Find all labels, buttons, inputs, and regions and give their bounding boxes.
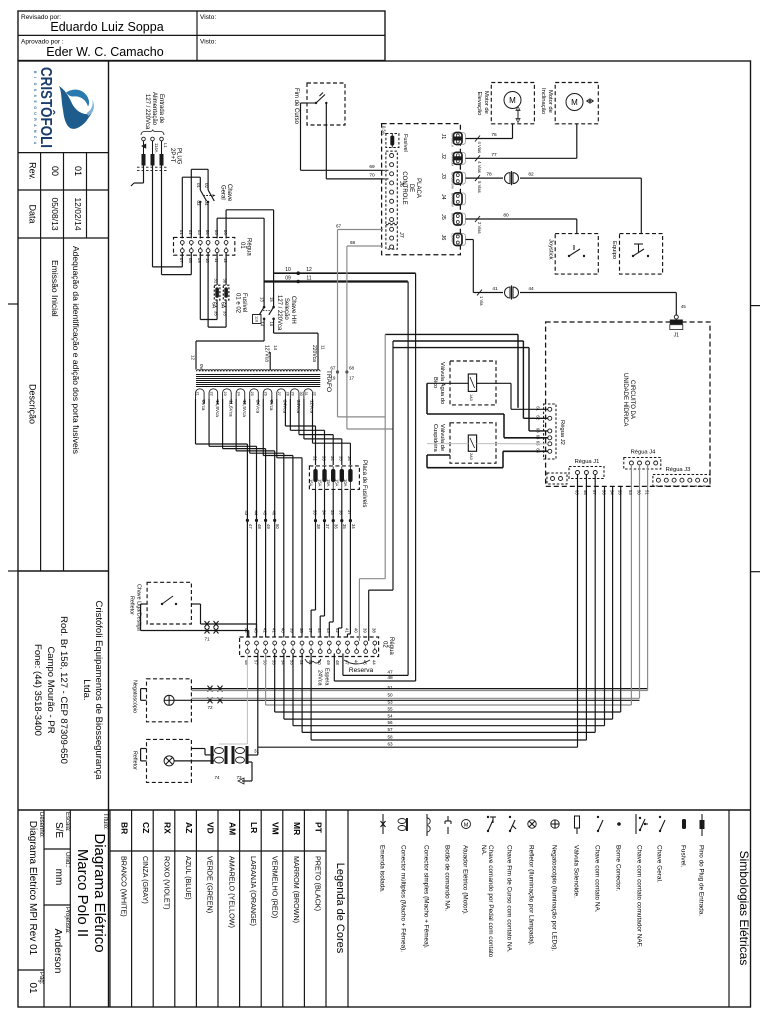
wires refletor with multi connectors 73 74 [141,746,260,784]
svg-text:53: 53 [387,699,393,704]
wires trafo taps to regua02 left terminals [196,408,303,638]
svg-text:15A: 15A [317,479,322,487]
svg-text:13: 13 [259,297,264,302]
svg-text:01: 01 [179,230,184,235]
svg-text:Motor de: Motor de [547,90,553,113]
svg-text:31: 31 [214,279,219,284]
svg-text:47: 47 [248,524,253,529]
svg-text:02: 02 [188,230,193,235]
svg-text:Régua J2: Régua J2 [559,420,565,445]
svg-text:2 Vias: 2 Vias [477,222,482,234]
svg-text:44: 44 [372,660,377,665]
reserva bracket [344,660,373,674]
svg-text:37: 37 [308,628,313,633]
wire 41-44 J6 to hydric unit J1 [466,240,687,316]
main switch Chave Geral [196,169,232,238]
svg-text:O: O [33,83,37,86]
hydric unit box CIRCUITO DA UNIDADE HIDRICA [546,322,710,486]
symbol insulated splice [379,814,386,893]
svg-text:Data: Data [27,204,37,223]
svg-text:24: 24 [236,392,240,396]
svg-text:Emenda isolada.: Emenda isolada. [379,845,386,893]
wire chaveHH to trafo 220 tap [274,319,318,370]
svg-text:10: 10 [205,258,210,263]
wires valvula cuspideira to J2 [427,444,548,468]
svg-text:1 Via: 1 Via [479,296,484,306]
terminal strip Regua J1 bottom [569,459,604,479]
svg-text:25: 25 [250,392,254,396]
bus verticals down to wires 47 48 [334,273,415,681]
svg-text:58: 58 [583,490,588,495]
svg-text:44: 44 [253,511,258,516]
svg-text:55: 55 [387,706,393,711]
svg-text:Entrada de: Entrada de [158,94,164,124]
svg-text:51: 51 [387,685,393,690]
svg-text:76: 76 [491,132,497,138]
terminal strip small regua bottom left [547,473,567,484]
wire 76 J1 to elevation motor [466,124,513,139]
splice marks 71 [204,621,218,642]
svg-text:S: S [33,89,37,92]
svg-text:22: 22 [209,392,213,396]
svg-text:Refletor (Iluminação por Lâmpa: Refletor (Iluminação por Lâmpada). [528,845,535,946]
svg-text:NA.: NA. [480,845,487,856]
svg-text:17: 17 [349,376,355,381]
double bus wires 09-12 to right [264,267,416,283]
svg-text:Emissão Inicial: Emissão Inicial [50,260,60,317]
svg-text:01: 01 [239,242,245,249]
svg-text:23: 23 [223,392,227,396]
svg-text:11: 11 [321,345,326,350]
svg-text:4 Vias: 4 Vias [477,142,482,154]
hydric unit connector J1 [670,315,683,339]
svg-text:41: 41 [492,286,498,292]
svg-text:J1: J1 [674,333,680,339]
wire regua01 t3 to fuse1 output [200,253,217,320]
svg-text:Visto:: Visto: [200,39,216,46]
symbol multi connector [398,818,407,952]
svg-text:57: 57 [387,727,393,732]
wire chave geral pole A loop [182,177,200,238]
svg-text:12: 12 [306,267,312,273]
svg-text:Fusível: Fusível [402,134,408,152]
wires chave refletor to regua02 [141,604,257,638]
svg-text:L1: L1 [163,143,168,148]
svg-text:49: 49 [326,660,331,665]
svg-text:Geral: Geral [220,185,226,200]
svg-text:UNIDADE HÍDRICA: UNIDADE HÍDRICA [622,373,629,426]
svg-text:ROXA: ROXA [451,213,455,222]
svg-text:67: 67 [330,366,336,371]
svg-text:12: 12 [191,355,196,361]
negatoscopio box [132,679,192,722]
wires fuse board outputs to regua02 [311,489,356,637]
svg-text:12/02/14: 12/02/14 [73,197,83,230]
svg-text:34: 34 [351,524,356,529]
svg-text:38: 38 [316,524,321,529]
espera 24vca bracket [305,659,330,687]
svg-text:15A: 15A [326,479,331,487]
svg-text:42: 42 [335,628,340,633]
svg-text:09: 09 [197,258,202,263]
wires negatoscopio 51 50 with splices 72 [141,686,648,710]
svg-text:Válvula de: Válvula de [439,424,445,451]
wires 67 68 from J7 down left [330,224,383,430]
svg-text:Negatoscópio (Iluminação por L: Negatoscópio (Iluminação por LEDs). [551,845,558,951]
wire plug pin3 to regua01 terminal 2 [162,166,192,275]
svg-text:39: 39 [290,628,295,633]
svg-text:0Vca: 0Vca [269,400,274,411]
svg-text:51: 51 [644,490,649,495]
svg-text:AM: AM [227,822,237,835]
symbol NAF switch [636,814,649,948]
svg-text:Descrição: Descrição [27,384,37,424]
svg-text:A: A [33,142,37,145]
symbol borne connector [615,822,622,891]
J2 feed wires from top [385,334,548,431]
svg-text:54: 54 [609,490,614,495]
svg-text:24Vca: 24Vca [255,400,260,413]
svg-text:J6: J6 [440,235,446,241]
svg-text:24Vca: 24Vca [317,670,323,687]
svg-text:Chave Fim de Curso com contato: Chave Fim de Curso com contato NA. [506,845,513,953]
svg-text:AZUL (BLUE): AZUL (BLUE) [184,856,193,900]
svg-text:MARROM: MARROM [451,193,455,207]
svg-text:Marco Polo II: Marco Polo II [74,849,91,937]
svg-text:37: 37 [347,510,352,515]
svg-text:52: 52 [299,660,304,665]
svg-text:CONTROLE: CONTROLE [401,171,407,204]
svg-text:B: B [33,71,37,74]
svg-text:6A: 6A [211,302,217,309]
svg-text:34: 34 [330,456,335,461]
equipo pedal box [611,234,663,275]
svg-text:40: 40 [353,628,358,633]
joystick box [547,234,598,275]
svg-text:LILAS: LILAS [451,234,455,242]
svg-text:Borne Conector.: Borne Conector. [615,845,622,891]
svg-text:28: 28 [286,392,290,396]
svg-text:Válvula Solenóide.: Válvula Solenóide. [573,845,580,898]
wire 80 J5 to joystick [466,213,577,233]
svg-text:43: 43 [244,511,249,516]
svg-text:38: 38 [299,628,304,633]
transformer TRAFO [196,370,333,399]
svg-text:J5: J5 [440,214,446,220]
svg-text:Atuador Elétrico (Motor).: Atuador Elétrico (Motor). [462,845,469,915]
electrical symbols legend title [729,810,751,1007]
svg-text:DE: DE [408,184,414,192]
svg-text:MR: MR [292,822,302,835]
svg-text:Chave HH: Chave HH [290,296,296,324]
svg-text:AMARELO (YELLOW): AMARELO (YELLOW) [227,856,236,928]
svg-text:55: 55 [272,660,277,665]
svg-text:Legenda de Cores: Legenda de Cores [334,863,346,954]
svg-text:56: 56 [387,720,393,725]
svg-text:VM: VM [271,822,281,835]
svg-text:36: 36 [339,510,344,515]
terminal strip Regua J4 [624,450,661,470]
svg-text:50: 50 [275,524,280,529]
fuse board Placa de Fusiveis [308,460,367,507]
svg-text:05/08/13: 05/08/13 [50,197,60,230]
wire regua01 t6 to bus upper [226,210,274,273]
svg-text:110: 110 [255,316,259,322]
svg-text:Fone: (44) 3518-3400: Fone: (44) 3518-3400 [32,644,43,736]
symbol solenoid valve [573,816,580,898]
svg-text:68: 68 [350,240,356,245]
svg-text:2A3: 2A3 [469,453,473,460]
svg-text:CIRCUITO DA: CIRCUITO DA [629,380,635,419]
svg-text:G: G [33,106,37,109]
svg-text:49: 49 [266,524,271,529]
company info block [18,571,109,780]
svg-text:LR: LR [249,822,259,833]
svg-text:03: 03 [197,230,202,235]
svg-text:Campo Mourão - PR: Campo Mourão - PR [45,646,56,733]
svg-text:127Vca: 127Vca [264,345,270,362]
symbol reflector [528,820,537,946]
wire 78-82 J3 to equipo [466,171,642,233]
wire regua01 t4 to fuse2 output [208,253,226,328]
svg-text:Equipo: Equipo [611,241,617,259]
solenoid valve Valvula de Cuspideira [432,423,496,463]
svg-text:10,8Vca: 10,8Vca [215,400,220,417]
svg-text:Cuspideira: Cuspideira [432,424,438,452]
svg-text:Régua J4: Régua J4 [631,450,657,456]
svg-text:Eduardo Luiz Soppa: Eduardo Luiz Soppa [50,20,163,34]
svg-text:Fusível.: Fusível. [680,845,687,868]
wire chave geral pole B loop [191,169,208,238]
board connector J2 right edge [440,152,466,166]
svg-text:71: 71 [204,637,210,642]
trafo primary 127V tap [264,345,279,370]
svg-text:Rev.: Rev. [27,162,37,180]
symbol fuse [680,819,687,868]
svg-text:68: 68 [349,366,355,371]
svg-text:S/E: S/E [53,822,64,838]
svg-text:21: 21 [196,392,200,396]
svg-text:VERDE (GREEN): VERDE (GREEN) [206,856,215,913]
svg-text:14: 14 [273,345,278,351]
svg-text:0Vca: 0Vca [201,400,206,411]
svg-text:MARROM (BROWN): MARROM (BROWN) [292,856,301,923]
board connector J6 right edge [440,234,466,246]
selector switch Chave HH 127/220 [253,273,297,331]
svg-text:48: 48 [257,524,262,529]
symbol single connector [423,814,431,949]
svg-text:01 e 02: 01 e 02 [235,293,241,314]
motor de inclinacao [540,83,598,124]
svg-text:35: 35 [342,524,347,529]
svg-text:Fusível: Fusível [241,293,247,312]
wires trafo taps to fuse board [285,408,352,465]
svg-text:VD: VD [206,822,216,834]
svg-text:J6: J6 [398,181,404,187]
svg-text:53: 53 [290,660,295,665]
trafo secondary tap wires and voltage labels [196,392,317,418]
svg-text:77: 77 [491,152,497,158]
svg-text:J2: J2 [440,153,446,159]
svg-text:M: M [464,823,469,829]
svg-text:Régua J1: Régua J1 [575,459,600,465]
svg-text:35: 35 [330,510,335,515]
svg-text:35: 35 [214,311,219,316]
svg-text:36: 36 [334,524,339,529]
wire regua01 t5 to bus lower [217,218,264,281]
svg-text:LARANJA (ORANGE): LARANJA (ORANGE) [249,856,258,926]
svg-text:00: 00 [50,166,60,176]
svg-text:44: 44 [528,286,534,292]
svg-text:78: 78 [486,172,492,178]
svg-text:Eder W. C. Camacho: Eder W. C. Camacho [46,45,163,59]
limit switch Fim de Curso [293,83,345,125]
refletor box [132,739,192,782]
svg-text:Régua: Régua [388,637,394,655]
svg-text:Conector múltiplos (Macho + Fê: Conector múltiplos (Macho + Fêmea). [400,845,407,952]
svg-text:Visto:: Visto: [200,14,216,21]
svg-text:53: 53 [628,490,633,495]
symbol plug pin [698,814,705,916]
revision header box [18,11,385,61]
svg-text:19: 19 [330,376,336,381]
svg-text:J4: J4 [440,194,446,200]
svg-text:5 Vias: 5 Vias [477,181,482,193]
svg-text:Chave Geral.: Chave Geral. [656,845,663,883]
svg-text:33: 33 [223,311,228,316]
svg-text:Refletor: Refletor [129,596,135,615]
svg-text:PLACA: PLACA [415,178,421,198]
svg-text:Fim de Curso: Fim de Curso [293,88,299,125]
svg-text:Título:: Título: [102,813,108,830]
svg-text:Motor de: Motor de [483,91,489,114]
terminal strip Regua J3 [653,467,710,486]
svg-text:38: 38 [372,628,377,633]
wire chaveHH to trafo primary left [196,319,264,370]
svg-text:2P+T: 2P+T [169,148,175,163]
control board PLACA DE CONTROLE [382,124,461,255]
motor de elevacao [476,83,534,124]
svg-text:50: 50 [636,490,641,495]
svg-text:46: 46 [353,660,358,665]
svg-text:12: 12 [223,258,228,263]
svg-text:06: 06 [223,230,228,235]
svg-text:127 / 220Vca: 127 / 220Vca [144,94,150,130]
svg-text:Joystick: Joystick [547,239,553,260]
svg-text:Ltda.: Ltda. [81,679,92,700]
svg-text:29: 29 [291,392,295,396]
svg-text:44: 44 [317,628,322,633]
svg-text:Chave comando por Pedal com co: Chave comando por Pedal com contato [487,845,494,958]
svg-text:MA QUADRI: MA QUADRI [451,172,455,189]
svg-text:54: 54 [387,714,393,719]
symbol pedal switch [480,816,496,958]
svg-text:114A: 114A [154,143,159,153]
svg-text:Cristófoli Equipamentos de Bio: Cristófoli Equipamentos de Biossegurança [93,600,104,780]
svg-text:CZ: CZ [141,822,151,833]
svg-text:34: 34 [321,510,326,515]
svg-text:Chave: Chave [226,184,232,202]
svg-text:46: 46 [272,511,277,516]
svg-text:15A: 15A [335,479,340,487]
svg-text:04: 04 [205,230,210,235]
symbol main switch [656,816,666,883]
svg-text:BR: BR [119,822,129,834]
wire plug pin2 to regua01 terminal 1 [153,166,183,267]
svg-text:U: U [33,112,37,115]
svg-text:08: 08 [188,258,193,263]
svg-text:Bico: Bico [432,377,438,388]
svg-text:32: 32 [312,456,317,461]
long verticals to regua02 terms 13 14 [359,334,393,641]
svg-text:32: 32 [313,392,317,396]
revision table [18,153,109,571]
svg-text:Régua: Régua [246,238,252,256]
terminal strip Regua 02 [240,628,394,665]
svg-text:Unid.:: Unid.: [64,852,70,868]
fuse holder Fusivel 01 e 02 [211,253,248,317]
svg-text:PRETO (BLACK): PRETO (BLACK) [314,856,323,911]
svg-text:30: 30 [299,392,303,396]
svg-text:Rod. Br 158, 127 - CEP 87309-6: Rod. Br 158, 127 - CEP 87309-650 [58,616,69,764]
svg-text:Inclinação: Inclinação [540,88,546,114]
svg-text:Refletor: Refletor [132,751,138,770]
svg-text:10: 10 [285,267,291,273]
board fuse 0,5A [382,126,409,152]
svg-text:C: C [33,136,37,139]
svg-text:AZ: AZ [184,822,194,833]
svg-text:40: 40 [281,628,286,633]
svg-text:Diagrama Eletrico MPI Rev 01: Diagrama Eletrico MPI Rev 01 [27,821,38,956]
svg-text:VERMELHO (RED): VERMELHO (RED) [271,856,280,918]
svg-text:50: 50 [387,693,393,698]
svg-text:CRISTÔFOLI: CRISTÔFOLI [37,67,56,148]
svg-text:A: A [33,124,37,127]
svg-text:09: 09 [285,276,291,282]
trim mark left [8,304,18,571]
symbol motor actuator [462,820,471,915]
wire fim de curso to J6 pin2 [326,103,383,179]
solenoid valve Valvula Agua do Bico [432,361,496,405]
svg-text:56: 56 [601,490,606,495]
wires valvula agua to J2 [427,383,548,438]
board connector J3 right edge [440,172,466,189]
svg-text:82: 82 [528,172,534,178]
wire 77 J2 to tilt motor [466,124,577,158]
svg-text:Chave com contato comutador NA: Chave com contato comutador NAF. [636,845,643,948]
svg-text:07: 07 [179,258,184,263]
svg-text:63: 63 [574,490,579,495]
svg-text:11: 11 [306,276,311,282]
svg-text:55: 55 [618,490,623,495]
svg-text:Seleção: Seleção [283,298,289,320]
svg-text:J3: J3 [440,173,446,179]
svg-text:11,6Vca: 11,6Vca [228,400,233,417]
svg-text:0,5A: 0,5A [382,126,387,135]
svg-text:E: E [33,101,37,104]
svg-text:43: 43 [326,628,331,633]
svg-text:15: 15 [269,297,274,302]
svg-text:74: 74 [214,775,220,780]
board connector J5 right edge [440,213,466,225]
ground for plug [131,144,146,187]
color legend table [110,810,348,1007]
svg-text:27: 27 [277,392,281,396]
svg-text:37: 37 [325,524,330,529]
svg-text:31: 31 [304,392,308,396]
svg-text:01: 01 [27,982,38,994]
symbol limit switch [506,816,517,953]
